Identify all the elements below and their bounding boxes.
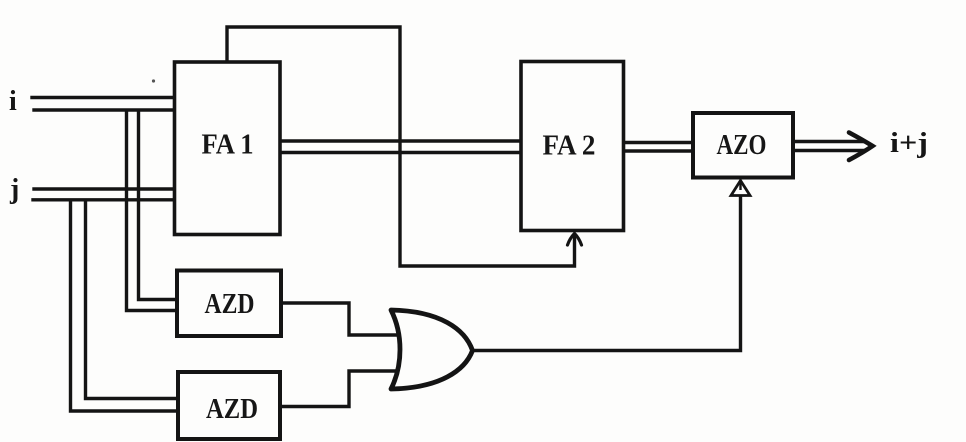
wire j branch to AZD2 upper input [86,201,178,399]
svg-text:FA 1: FA 1 [202,130,254,161]
wire j branch to AZD2 lower input [71,201,178,411]
wire AZD2 output to OR gate [280,371,402,407]
wire OR gate output to AZO [473,195,741,351]
ink speck [152,79,155,82]
wire i bus line 2 [34,108,176,111]
wire stub inside open arrowhead [739,183,741,190]
arrowhead into FA2 bottom [568,234,582,246]
wire AZO output bus line 1 [792,140,863,143]
wire i branch to AZD1 upper input [139,111,177,300]
wire FA1 to FA2 bus line 2 [279,151,522,154]
svg-text:i+j: i+j [890,128,928,159]
box FA2 [521,62,624,231]
svg-text:i: i [9,86,17,117]
svg-text:AZO: AZO [717,130,767,161]
box AZD2 [178,372,280,439]
or-gate OR1 [391,310,473,389]
wire carry loop FA1 top to FA2 bottom [227,27,575,266]
svg-text:FA 2: FA 2 [543,131,596,162]
svg-text:j: j [9,174,19,205]
box FA1 [175,62,281,235]
box AZO [693,113,793,178]
wire i bus line 1 [32,96,176,99]
wire FA1 to FA2 bus line 1 [279,139,522,142]
open arrowhead into AZO bottom [731,181,750,196]
wire AZO output bus line 2 [792,149,863,152]
wire j bus line 2 [33,198,176,201]
wire FA2 to AZO bus line 1 [623,141,694,144]
wire j bus line 1 [34,187,176,190]
wire AZD1 output to OR gate [281,303,402,335]
box AZD1 [177,271,281,337]
wire FA2 to AZO bus line 2 [623,149,694,152]
output arrowhead [849,133,873,161]
svg-text:AZD: AZD [206,394,258,425]
wire i branch to AZD1 lower input [127,111,177,311]
svg-text:AZD: AZD [205,289,255,320]
